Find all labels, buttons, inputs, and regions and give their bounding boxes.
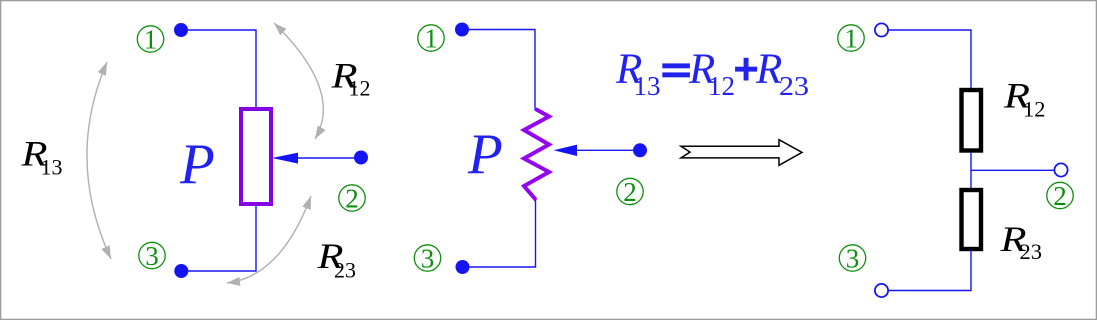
wire from terminal 1 to resistor R12 (equivalent circuit): [889, 30, 972, 89]
potentiometer P body rectangle: [241, 109, 271, 204]
svg-text:3: 3: [421, 244, 435, 274]
open terminal circle 1 (equivalent circuit): [875, 23, 888, 36]
svg-text:12: 12: [349, 76, 371, 101]
svg-text:12: 12: [1023, 97, 1046, 122]
label R12 (left, black): [330, 56, 370, 101]
terminal dot 2 (middle potentiometer): [633, 143, 647, 157]
svg-text:13: 13: [41, 155, 63, 180]
svg-text:2: 2: [1053, 181, 1067, 211]
wiper arrow (left potentiometer): [272, 153, 298, 164]
wiper arrow (middle potentiometer): [554, 145, 578, 156]
formula R13 = R12 + R23 (blue): [615, 46, 809, 101]
wire from potentiometer bottom to terminal 3 (left): [186, 205, 256, 271]
node 2 terminal label (left potentiometer): [339, 184, 365, 214]
svg-text:23: 23: [1020, 239, 1043, 264]
svg-text:1: 1: [424, 24, 438, 54]
svg-text:13: 13: [634, 71, 661, 101]
open terminal circle 3 (equivalent circuit): [875, 284, 888, 297]
svg-text:1: 1: [844, 24, 858, 54]
terminal dot 2 (left potentiometer): [354, 151, 368, 165]
wire from R23 to terminal 3 (equivalent circuit): [889, 250, 972, 291]
wire from R12 to node 2 junction and R23 (equivalent circuit): [970, 152, 972, 189]
node 2 terminal label (equivalent circuit): [1047, 181, 1073, 211]
terminal dot 1 (middle potentiometer): [455, 23, 469, 37]
node 1 terminal label (middle potentiometer): [418, 24, 444, 54]
label R13 (left, black): [20, 134, 62, 180]
terminal dot 1 (left potentiometer): [174, 23, 188, 37]
measurement arc R13 (terminal 1 to 3): [87, 62, 111, 259]
svg-text:3: 3: [145, 241, 159, 271]
wire from resistor bottom to terminal 3 (middle): [467, 200, 536, 267]
label R23 (left, black): [316, 236, 356, 283]
svg-text:12: 12: [708, 71, 735, 101]
wire from junction to terminal 2 (equivalent circuit): [971, 169, 1055, 171]
measurement arc R12 (terminal 1 to wiper): [274, 23, 326, 139]
wire from wiper to terminal 2 dot (middle): [575, 149, 633, 151]
node 3 terminal label (equivalent circuit): [839, 244, 865, 274]
svg-text:3: 3: [846, 244, 860, 274]
open terminal circle 2 (equivalent circuit): [1054, 163, 1067, 176]
svg-text:23: 23: [779, 71, 809, 101]
terminal dot 3 (middle potentiometer): [456, 260, 470, 274]
wire from terminal 1 to resistor top (middle): [467, 30, 535, 111]
svg-text:23: 23: [334, 258, 356, 283]
node 2 terminal label (middle potentiometer): [617, 177, 643, 207]
svg-text:2: 2: [345, 184, 359, 214]
measurement arc R23 (wiper to terminal 3): [227, 196, 311, 286]
wire from wiper to terminal 2 dot (left): [295, 157, 354, 159]
resistor R12 body (equivalent circuit): [962, 90, 982, 151]
potentiometer zigzag resistor element (middle): [524, 109, 549, 200]
label R12 (equivalent circuit, black): [1003, 76, 1046, 122]
node 3 terminal label (left potentiometer): [139, 241, 165, 271]
svg-text:P: P: [179, 133, 215, 196]
node 3 terminal label (middle potentiometer): [414, 244, 440, 274]
node 1 terminal label (equivalent circuit): [838, 24, 864, 54]
resistor R23 body (equivalent circuit): [962, 190, 982, 249]
svg-text:1: 1: [144, 25, 158, 55]
terminal dot 3 (left potentiometer): [174, 264, 188, 278]
wire from terminal 1 to potentiometer top (left): [186, 30, 256, 108]
svg-text:P: P: [467, 123, 503, 186]
label R23 (equivalent circuit, black): [999, 219, 1042, 264]
svg-text:2: 2: [623, 177, 637, 207]
equivalence arrow (outline double arrow): [681, 140, 802, 166]
node 1 terminal label (left potentiometer): [137, 25, 163, 55]
